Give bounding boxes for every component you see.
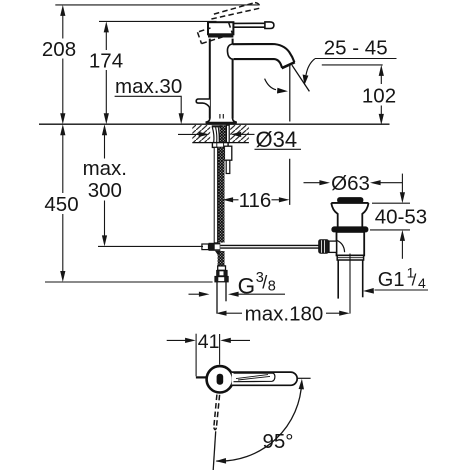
svg-text:300: 300 xyxy=(88,179,122,202)
dim 450 xyxy=(45,128,213,283)
handle axis line xyxy=(213,431,216,470)
jet slant line xyxy=(292,65,309,91)
dim 116 xyxy=(233,199,279,201)
flange xyxy=(331,203,337,227)
svg-text:450: 450 xyxy=(44,193,78,216)
spout outlet face xyxy=(282,62,295,68)
spout bottom curve xyxy=(233,59,282,68)
dashed handle rotated up xyxy=(198,3,260,44)
tailpipe xyxy=(337,260,339,299)
mounting stud xyxy=(224,146,231,160)
svg-text:max.30: max.30 xyxy=(115,75,182,98)
handle capsule top view xyxy=(232,372,297,385)
dim 41 xyxy=(167,334,250,377)
svg-text:Ø63: Ø63 xyxy=(331,172,370,195)
svg-text:102: 102 xyxy=(362,85,396,108)
angle ref line xyxy=(297,377,311,379)
drain assembly xyxy=(319,198,369,314)
svg-text:95°: 95° xyxy=(262,430,293,453)
coupling nut xyxy=(337,255,363,260)
svg-text:8: 8 xyxy=(268,278,276,294)
knurled adjuster xyxy=(319,240,329,254)
cartridge block xyxy=(208,22,233,34)
below-deck shank: hole contents xyxy=(212,125,230,142)
deck cross-section hatch xyxy=(192,125,249,143)
left swivel arrow xyxy=(265,79,276,90)
svg-text:40-53: 40-53 xyxy=(375,206,427,229)
svg-text:116: 116 xyxy=(239,189,272,212)
deck line xyxy=(39,123,390,125)
svg-text:Ø34: Ø34 xyxy=(256,127,298,152)
svg-text:41: 41 xyxy=(198,331,220,353)
braided hose xyxy=(218,147,225,242)
svg-text:/: / xyxy=(412,270,417,289)
dashed handle down xyxy=(214,395,220,430)
solid handle lever xyxy=(233,22,274,29)
base flare xyxy=(206,119,236,123)
dim 102 xyxy=(380,68,382,122)
dim Ø34 xyxy=(178,134,301,149)
dim Ø63 xyxy=(304,182,403,184)
dim 174 xyxy=(99,21,217,121)
mounting nut xyxy=(212,143,228,148)
dim 40-53 xyxy=(370,174,410,259)
seal ring xyxy=(332,227,368,232)
svg-text:max.180: max.180 xyxy=(245,303,324,326)
dim max.300 xyxy=(98,128,203,247)
spout stub xyxy=(196,376,208,378)
lower body xyxy=(337,232,365,256)
hose end connector G3/8 xyxy=(215,266,229,314)
svg-text:/: / xyxy=(262,273,267,293)
svg-text:208: 208 xyxy=(42,38,76,61)
dim 208 xyxy=(55,5,258,121)
leader curve from 25-45 xyxy=(306,59,315,75)
hoses inside body xyxy=(220,114,223,121)
dashed cartridge outline rotated xyxy=(199,28,211,32)
svg-text:4: 4 xyxy=(418,275,426,291)
water stream line xyxy=(289,66,291,205)
rod inlet box xyxy=(329,241,337,252)
svg-text:G1: G1 xyxy=(378,269,405,291)
spout end cap bulge xyxy=(227,44,233,59)
pop-up rod vertical xyxy=(214,147,217,242)
svg-text:max.: max. xyxy=(83,157,127,180)
95 degree arc xyxy=(216,382,301,462)
lever tab xyxy=(196,99,210,108)
body walls xyxy=(209,39,211,119)
svg-text:174: 174 xyxy=(89,50,123,73)
body circle top view xyxy=(207,366,233,392)
svg-text:25 - 45: 25 - 45 xyxy=(324,37,388,60)
svg-text:G: G xyxy=(238,274,256,299)
plug cap xyxy=(338,198,363,203)
faucet body xyxy=(196,22,295,124)
pop-up rod horizontal + clamp xyxy=(98,246,202,248)
spout top curve xyxy=(233,44,295,62)
